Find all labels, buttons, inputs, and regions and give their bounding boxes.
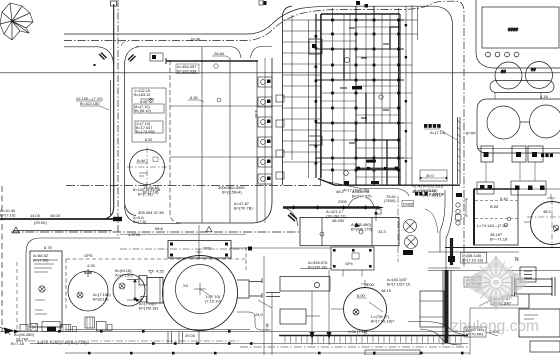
svg-text:4.00: 4.00 — [366, 282, 375, 287]
svg-text:B=(7.10.18): B=(7.10.18) — [462, 258, 484, 263]
wire: leader lines — [258, 300, 320, 316]
wire: vertical road second edge — [110, 80, 112, 215]
wire: step outline right of big tank — [237, 312, 271, 330]
wire: long horizontal line y73 full width — [0, 72, 560, 74]
pipe: thick main line — [283, 206, 377, 208]
wire: road hatch marks at junction — [99, 53, 136, 62]
building: rect with labels — [474, 189, 518, 245]
svg-text:4.18: 4.18 — [540, 94, 549, 99]
wire: vertical road left edge — [106, 4, 114, 219]
svg-text:B=394.575: B=394.575 — [352, 194, 372, 199]
svg-text:B=7.18: B=7.18 — [11, 341, 25, 346]
svg-text:1-3704: 1-3704 — [128, 232, 141, 237]
wire: dashed left line — [16, 262, 18, 330]
girder: H-beam top right — [512, 277, 555, 308]
label boxes with leaders — [464, 277, 486, 287]
wire: bottom road arcs and arrows — [0, 327, 10, 335]
wire: road line y353 — [65, 352, 470, 354]
wire: left nozzle flange — [147, 278, 163, 304]
wire: starburst rock symbol top-left — [0, 3, 33, 40]
wire: road line y329 — [65, 329, 250, 331]
wire: dash-dot vertical x398 — [397, 196, 399, 262]
node: four small circles — [486, 52, 491, 57]
building: mid-right pump house — [477, 93, 560, 163]
svg-text:48.1: 48.1 — [265, 323, 270, 332]
svg-text:XX: XX — [183, 283, 189, 288]
wire: top edge with driveway arcs — [136, 47, 272, 59]
wire: outer boundary — [476, 0, 560, 68]
svg-text:4.50: 4.50 — [254, 110, 259, 119]
wire: main grid horizontals — [321, 20, 418, 170]
svg-text:B=–71.18: B=–71.18 — [490, 237, 508, 242]
wire: outer rounded boundary — [283, 6, 293, 185]
svg-text:75.61: 75.61 — [386, 194, 397, 199]
wire: small cell marks inside grid — [340, 28, 389, 143]
svg-text:B=(7.10): B=(7.10) — [0, 213, 16, 218]
svg-text:(7.10.10): (7.10.10) — [205, 299, 222, 304]
svg-text:1.05 (7.10): 1.05 (7.10) — [348, 329, 368, 334]
wire: thick upper chord — [166, 60, 258, 62]
center band roads and mains — [66, 182, 418, 311]
tank B — [113, 274, 145, 306]
svg-text:##: ## — [531, 67, 536, 72]
svg-text:48.15: 48.15 — [381, 288, 392, 293]
svg-text:GPx: GPx — [345, 261, 353, 266]
svg-text:6.32: 6.32 — [145, 138, 152, 142]
svg-text:45.00: 45.00 — [50, 213, 61, 218]
svg-text:B=##: B=## — [466, 131, 476, 136]
building: pump sheds on road — [20, 325, 28, 332]
svg-text:DN65: DN65 — [403, 201, 414, 206]
wire: stronger grid lines — [315, 20, 404, 158]
building: platform rects left of tank D — [136, 277, 330, 325]
svg-text:8.08: 8.08 — [140, 100, 147, 104]
wire: vertical crossings — [264, 256, 272, 355]
building: process unit rect center — [300, 218, 399, 246]
svg-text:6.30: 6.30 — [190, 95, 199, 100]
wire: road edge curving near grid building bottom — [329, 182, 409, 208]
svg-text:30.0: 30.0 — [426, 173, 435, 178]
wire: road curve right — [440, 190, 453, 270]
bottom-left block — [0, 231, 145, 336]
wire: corner arc below left — [285, 208, 298, 226]
tank E right — [531, 202, 560, 245]
building: small rect bottom center — [365, 350, 420, 355]
wire: S-curve — [420, 329, 462, 345]
wire: equipment notch on left wing — [309, 39, 322, 145]
building: main outline — [318, 14, 460, 185]
wire: dimension verticals with arrows — [312, 270, 329, 345]
wire: right edge and bottom with corner — [181, 58, 272, 223]
building: tall chemical building — [30, 251, 62, 327]
wire: road corner to bottom — [408, 322, 464, 335]
svg-text:4.25: 4.25 — [87, 263, 96, 268]
wire: thick road line y219 — [0, 218, 114, 220]
node: dash-dot line y185 — [66, 185, 320, 187]
svg-text:4.25: 4.25 — [156, 269, 165, 274]
wire: right nozzle flange — [237, 280, 262, 298]
node: road centerline horizontal — [64, 1, 464, 268]
node: gate marks on top edge — [356, 1, 360, 5]
tank: inner ring — [176, 265, 225, 314]
equipment boxes right column — [258, 58, 284, 223]
svg-text:B=(7M.18): B=(7M.18) — [308, 265, 327, 270]
svg-text:8.75: 8.75 — [44, 245, 53, 250]
svg-text:19.45: 19.45 — [190, 37, 201, 42]
svg-text:A=(7.10): A=(7.10) — [430, 130, 446, 135]
wire: left edge dashed — [170, 60, 181, 223]
svg-text:A=(7.150): A=(7.150) — [115, 273, 133, 278]
wire: leaders from building — [486, 162, 535, 182]
wire: thick road line y335 — [279, 335, 468, 337]
svg-text:B=(M8.175): B=(M8.175) — [351, 227, 373, 232]
svg-text:GPS: GPS — [84, 253, 93, 258]
valve: circle-cross symbols right — [404, 220, 417, 233]
pipe: thick vertical channel bottom right — [445, 270, 449, 343]
wire: road line y343 — [30, 343, 468, 345]
wire: horizontal road top edge curving up right — [64, 6, 453, 190]
wire: vertical from big tank to OPC — [198, 225, 200, 258]
wire: flag symbol — [376, 209, 381, 221]
svg-text:4x4=0.75 A=(7.15) B=(7.15)0: 4x4=0.75 A=(7.15) B=(7.15)0 — [37, 340, 89, 345]
wire: equipment chain left of rect — [456, 203, 460, 207]
wire: right band verticals — [411, 5, 413, 186]
svg-text:98.8: 98.8 — [155, 226, 164, 231]
svg-text:##: ## — [501, 69, 506, 74]
svg-text:B=(7.10)7.10: B=(7.10)7.10 — [387, 282, 411, 287]
svg-text:14.00: 14.00 — [30, 213, 41, 218]
svg-text:B=(2.50x4): B=(2.50x4) — [222, 190, 242, 195]
wire: road line y347 dashdot — [240, 346, 468, 348]
building: outline rects left of channel — [420, 291, 444, 327]
svg-text:zhulong.com: zhulong.com — [451, 318, 539, 335]
svg-text:B=(M.10): B=(M.10) — [135, 109, 151, 113]
wire: right fillet arc at upper junction — [125, 47, 140, 63]
wire: main grid verticals — [333, 6, 418, 185]
wire: rects with squares above — [477, 182, 494, 194]
bottom long lines — [0, 225, 470, 355]
node: center crosshair — [194, 283, 212, 297]
node: dashed enclosure around tanks — [66, 247, 246, 311]
wire: hatch ticks on bottom road — [285, 336, 461, 343]
node: small circle symbols — [359, 230, 363, 234]
svg-text:29.00: 29.00 — [185, 333, 196, 338]
wire: road edge arc right of bottom junction — [125, 205, 182, 223]
tank: two round clarifiers — [495, 62, 522, 89]
node: road centerline vertical — [117, 0, 119, 236]
svg-text:(29.00): (29.00) — [34, 220, 47, 225]
svg-text:L=74.140—(7.50: L=74.140—(7.50 — [477, 223, 508, 228]
right side lower structures — [420, 117, 560, 355]
svg-text:B=(8.10): B=(8.10) — [93, 297, 109, 302]
building: stadium basin — [490, 81, 554, 93]
svg-text:26.84: 26.84 — [214, 51, 225, 56]
svg-text:33.3: 33.3 — [378, 229, 387, 234]
wire: posts between road lines — [168, 332, 183, 344]
svg-text:48.2: 48.2 — [543, 209, 552, 214]
svg-text:N: N — [515, 257, 519, 263]
tank D bottom center-right — [331, 280, 387, 337]
svg-text:B=(7.6): B=(7.6) — [133, 219, 147, 224]
wire: thick black bar — [450, 238, 453, 265]
svg-text:A=M: A=M — [137, 159, 145, 163]
svg-text:OPC: OPC — [203, 246, 212, 251]
tank A — [68, 269, 108, 311]
junction box symbol — [520, 267, 536, 282]
wire: small rects below — [481, 146, 493, 162]
building: big rect right bottom — [519, 309, 560, 337]
building: center-left rounded building — [127, 47, 284, 224]
svg-text:4.25: 4.25 — [84, 270, 93, 275]
wire: top square on road — [111, 1, 117, 6]
node: A-triangle marker — [13, 227, 20, 233]
wire: dash-dot corner — [122, 42, 129, 47]
label: wall note — [424, 124, 441, 128]
svg-text:B=(7.10.18)7: B=(7.10.18)7 — [371, 319, 395, 324]
svg-text:B=(7M.18): B=(7M.18) — [139, 306, 158, 311]
building: top-right office building — [476, 0, 560, 93]
building: inner rect — [482, 7, 559, 48]
svg-text:24.0: 24.0 — [255, 312, 264, 317]
wire: misc connection lines — [199, 248, 331, 258]
wire: left wing verticals — [292, 14, 321, 186]
svg-text:2900: 2900 — [338, 199, 348, 204]
wire: left wing horizontals — [283, 20, 322, 162]
big tank center bottom — [127, 256, 280, 331]
wire: left border vertical dashed — [1, 186, 3, 332]
watermark — [451, 255, 539, 336]
tank T1 left circle — [127, 147, 167, 187]
label: right mid — [541, 154, 553, 158]
wire: lines y247 y252 — [445, 247, 560, 249]
svg-text:B=174.058: B=174.058 — [136, 130, 154, 134]
svg-text:B=192.038: B=192.038 — [177, 69, 197, 74]
building: rect GPx — [331, 247, 374, 270]
svg-text:A=(7.18)(2.15): A=(7.18)(2.15) — [343, 188, 370, 193]
wire: inner verticals — [202, 47, 257, 223]
label cluster boxes — [132, 88, 166, 142]
node: diamonds on main — [291, 205, 367, 209]
svg-text:48.292: 48.292 — [332, 218, 345, 223]
node: dash-dot line y232 — [11, 231, 300, 233]
wire: narrow double bar wall — [458, 117, 461, 184]
node: small dot — [94, 64, 96, 66]
building: hatched band bottom of grid building — [357, 160, 398, 171]
wire: vertical road right edge with fillet to horizontal — [125, 63, 137, 216]
watermark logo diamond — [465, 255, 527, 311]
svg-text:6.00: 6.00 — [357, 293, 366, 298]
svg-text:9.40: 9.40 — [500, 196, 509, 201]
svg-text:B=(7.18): B=(7.18) — [143, 190, 159, 195]
wire: inner horizontals — [170, 106, 283, 157]
wire: horizontal road lower edge left part with fillet — [64, 47, 114, 64]
tank: outer ring — [163, 256, 238, 331]
svg-text:7.10(7)#: 7.10(7)# — [429, 192, 445, 197]
svg-text:B=(7.50): B=(7.50) — [33, 258, 49, 263]
node: dots along roads — [58, 330, 464, 354]
tank: two digesters — [487, 106, 520, 139]
svg-text:####: #### — [508, 27, 519, 32]
svg-text:B=163.15: B=163.15 — [134, 93, 150, 97]
svg-text:B.05: B.05 — [490, 204, 499, 209]
wire: interior partition dark lines — [344, 27, 390, 185]
node: column dots — [315, 19, 408, 172]
wire: fence rounded corner — [26, 238, 120, 330]
wire: road line y331 — [0, 331, 470, 333]
svg-text:B=102.180: B=102.180 — [80, 101, 100, 106]
building: big grid building top-center — [259, 0, 460, 186]
svg-text:B=(7K.7B): B=(7K.7B) — [234, 206, 253, 211]
building: OPC dock rect — [168, 241, 231, 259]
